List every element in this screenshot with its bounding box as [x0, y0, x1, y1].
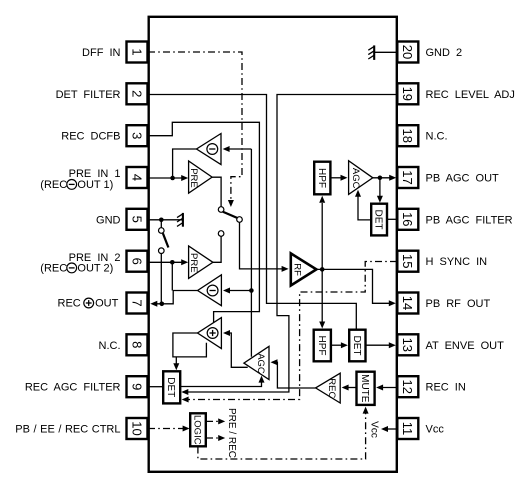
svg-text:PB AGC OUT: PB AGC OUT — [426, 173, 500, 185]
svg-text:PB / EE / REC CTRL: PB / EE / REC CTRL — [15, 424, 120, 436]
svg-text:N.C.: N.C. — [99, 340, 121, 352]
svg-text:10: 10 — [129, 421, 144, 435]
svg-text:13: 13 — [400, 338, 415, 352]
svg-text:DET: DET — [165, 377, 176, 397]
svg-text:HPF: HPF — [316, 336, 327, 356]
svg-text:OUT: OUT — [95, 297, 119, 309]
svg-text:5: 5 — [129, 216, 144, 223]
svg-text:REC: REC — [58, 297, 81, 309]
svg-text:15: 15 — [400, 254, 415, 268]
svg-text:RF: RF — [291, 263, 302, 276]
svg-text:PB AGC FILTER: PB AGC FILTER — [426, 214, 513, 226]
svg-text:N.C.: N.C. — [426, 131, 448, 143]
svg-text:Vcc: Vcc — [369, 421, 380, 438]
svg-text:HPF: HPF — [316, 168, 327, 188]
svg-text:AGC: AGC — [350, 168, 361, 189]
svg-text:9: 9 — [129, 383, 144, 390]
svg-text:PRE / REC: PRE / REC — [226, 408, 237, 458]
svg-text:12: 12 — [400, 379, 415, 393]
svg-text:LOGIC: LOGIC — [192, 415, 203, 445]
svg-text:11: 11 — [400, 422, 415, 436]
svg-text:2: 2 — [129, 90, 144, 97]
svg-text:DET: DET — [351, 336, 362, 356]
svg-text:3: 3 — [129, 132, 144, 139]
svg-text:(REC: (REC — [40, 179, 67, 191]
svg-text:4: 4 — [129, 174, 144, 181]
svg-text:19: 19 — [400, 87, 415, 101]
svg-text:OUT 1): OUT 1) — [77, 179, 113, 191]
svg-text:REC: REC — [326, 378, 337, 398]
svg-text:17: 17 — [400, 170, 415, 184]
svg-text:1: 1 — [129, 48, 144, 55]
svg-text:AGC: AGC — [255, 353, 266, 374]
svg-text:20: 20 — [400, 45, 415, 59]
svg-text:GND 2: GND 2 — [426, 47, 463, 59]
svg-text:DFF IN: DFF IN — [82, 47, 120, 59]
svg-text:Vcc: Vcc — [426, 424, 445, 436]
svg-text:REC AGC FILTER: REC AGC FILTER — [25, 382, 121, 394]
svg-text:7: 7 — [129, 299, 144, 306]
svg-text:8: 8 — [129, 341, 144, 348]
svg-text:REC IN: REC IN — [426, 382, 466, 394]
svg-text:PRE: PRE — [188, 168, 199, 188]
svg-text:H SYNC IN: H SYNC IN — [426, 256, 488, 268]
svg-text:REC DCFB: REC DCFB — [61, 131, 120, 143]
svg-text:PB RF OUT: PB RF OUT — [426, 298, 491, 310]
svg-text:18: 18 — [400, 128, 415, 142]
svg-text:OUT 2): OUT 2) — [77, 262, 113, 274]
svg-text:14: 14 — [400, 296, 415, 310]
svg-text:DET FILTER: DET FILTER — [56, 89, 121, 101]
svg-text:REC LEVEL ADJ: REC LEVEL ADJ — [426, 89, 515, 101]
svg-text:16: 16 — [400, 212, 415, 226]
svg-text:(REC: (REC — [40, 262, 67, 274]
svg-text:6: 6 — [129, 258, 144, 265]
svg-text:AT ENVE OUT: AT ENVE OUT — [426, 340, 505, 352]
svg-text:GND: GND — [96, 214, 121, 226]
svg-text:MUTE: MUTE — [359, 374, 370, 403]
svg-text:PRE: PRE — [188, 253, 199, 273]
svg-text:DET: DET — [373, 210, 384, 230]
